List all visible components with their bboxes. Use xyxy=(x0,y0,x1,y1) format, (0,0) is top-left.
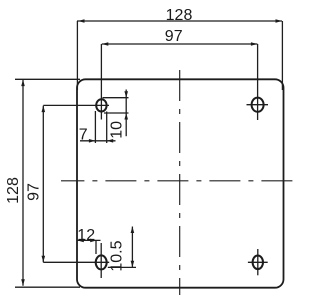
svg-text:97: 97 xyxy=(25,183,42,201)
svg-text:10.5: 10.5 xyxy=(108,240,125,271)
svg-text:128: 128 xyxy=(5,177,22,204)
svg-text:12: 12 xyxy=(77,227,95,244)
svg-text:10: 10 xyxy=(108,121,125,139)
svg-text:128: 128 xyxy=(166,7,193,24)
svg-text:97: 97 xyxy=(165,28,183,45)
svg-text:7: 7 xyxy=(79,126,88,143)
